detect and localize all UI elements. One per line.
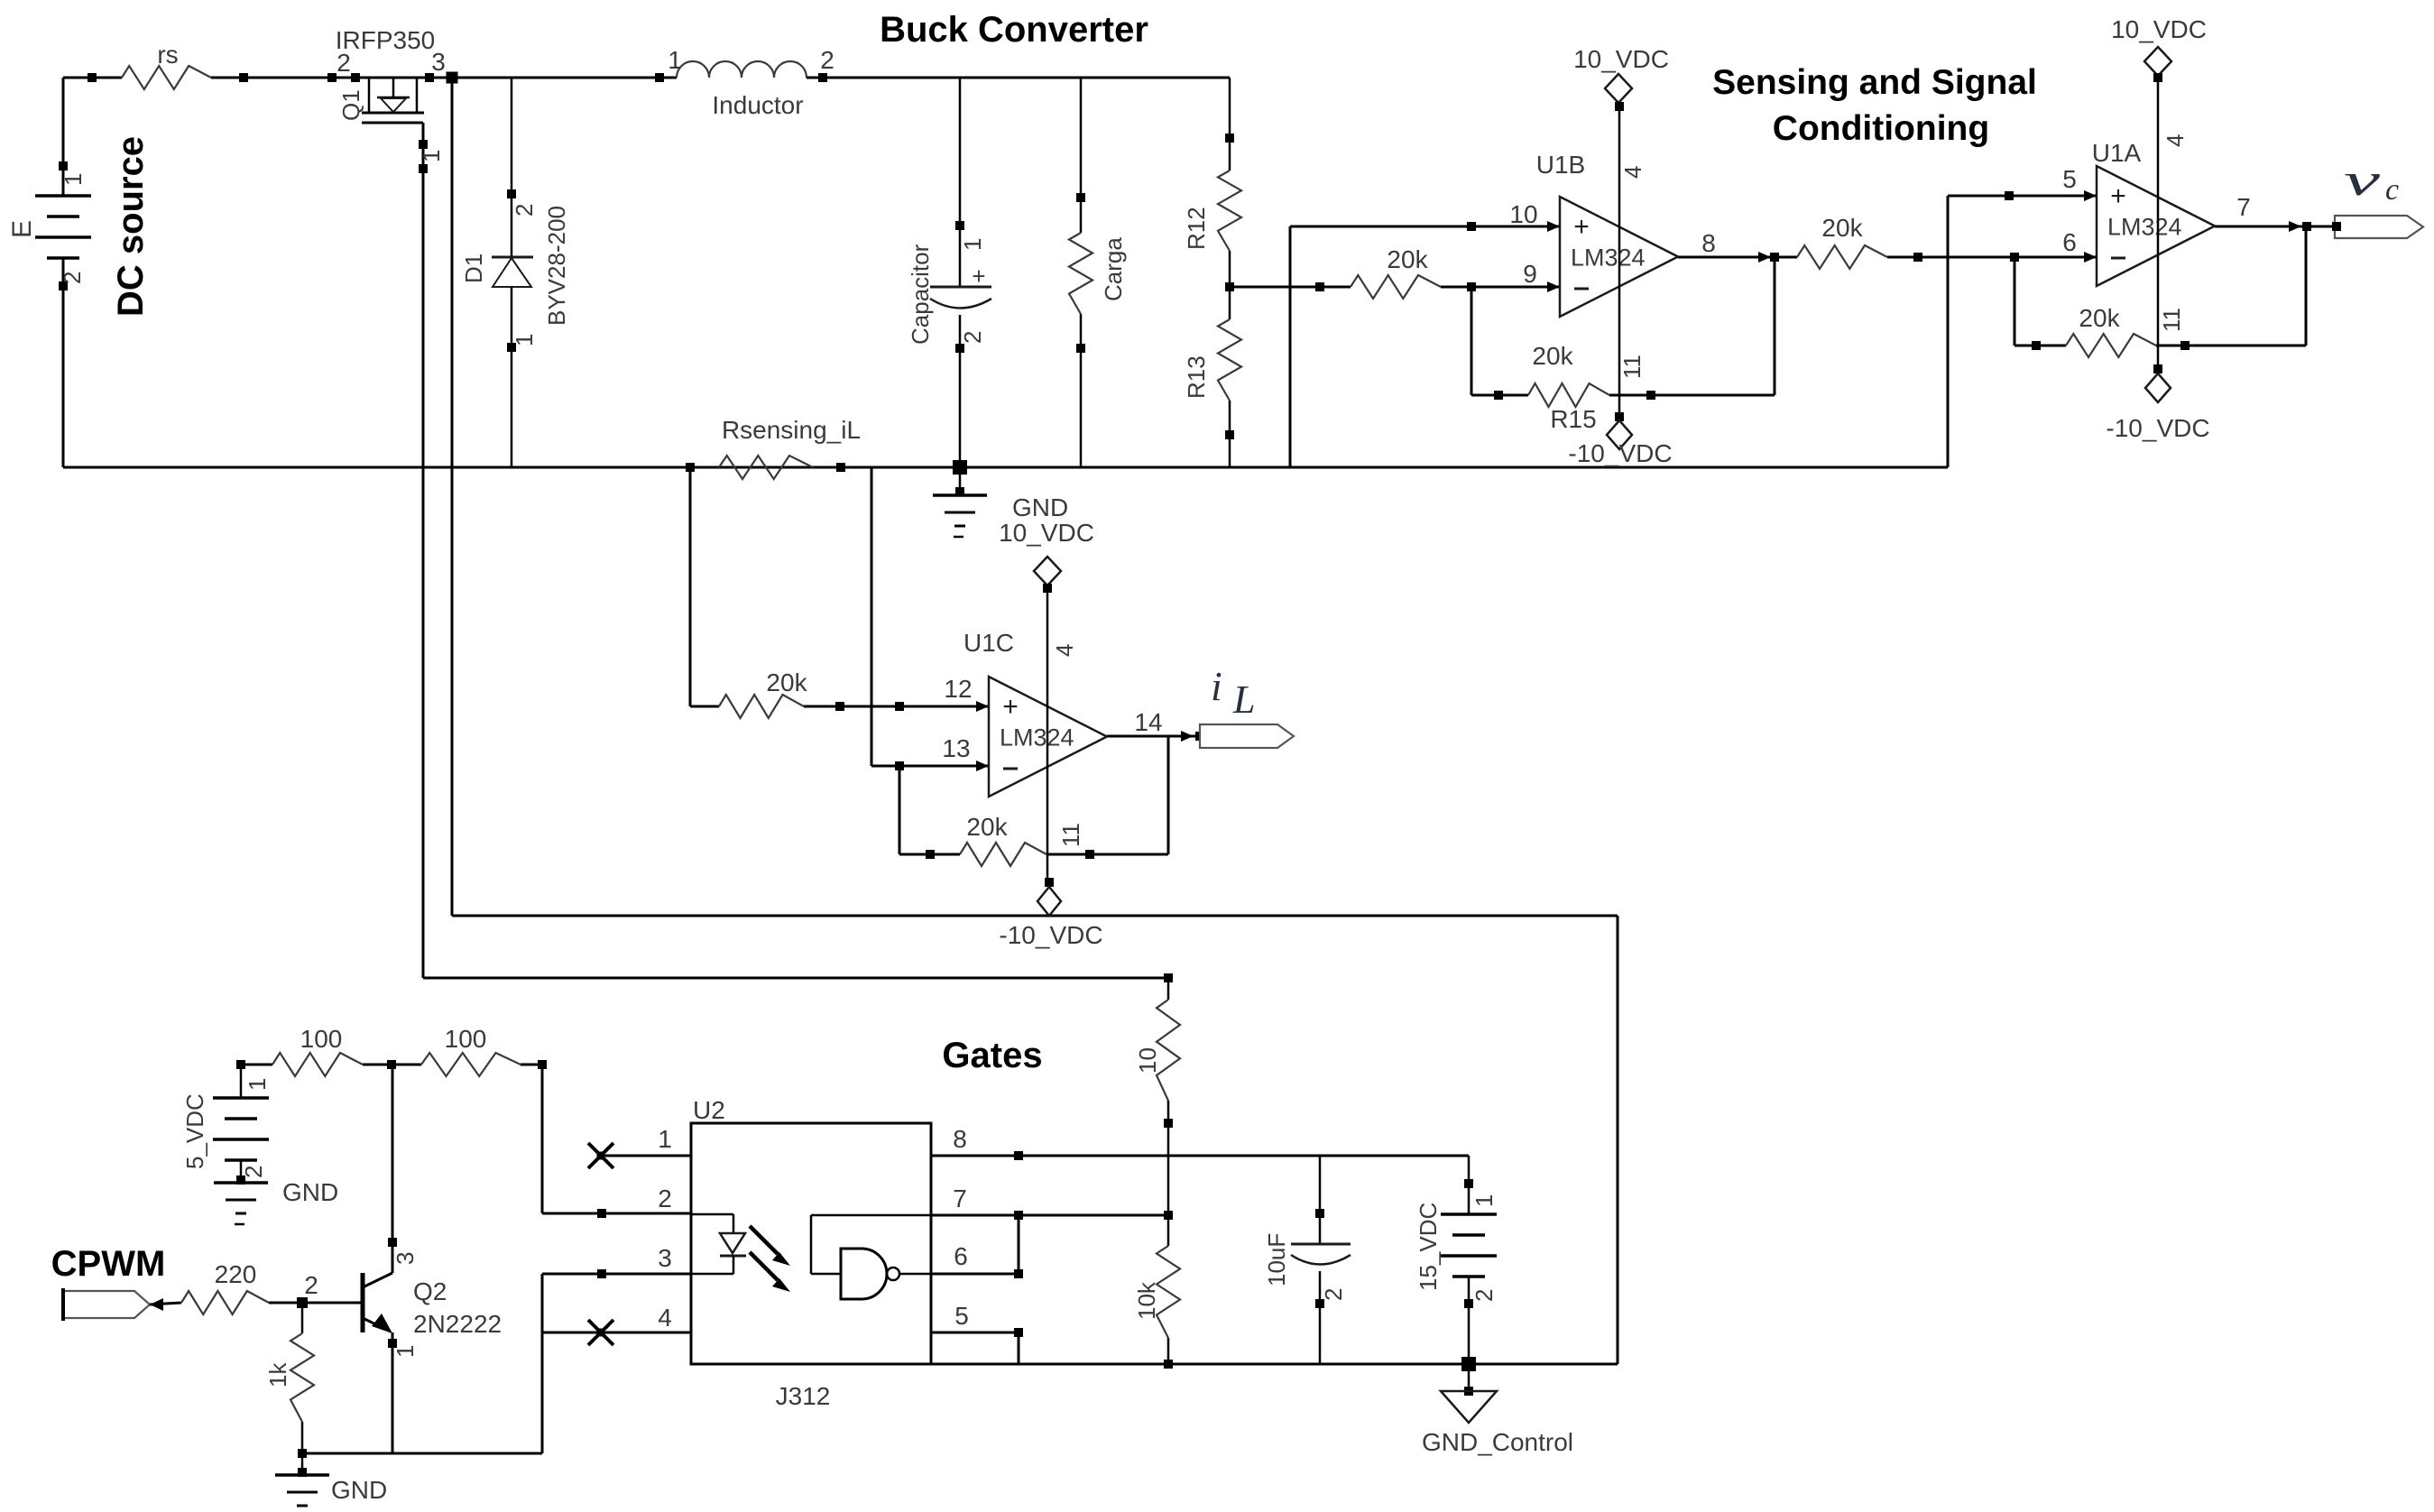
svg-text:Carga: Carga <box>1100 237 1127 301</box>
LED inside U2 <box>691 1213 733 1216</box>
svg-text:U1C: U1C <box>963 629 1014 657</box>
node pin3 of Q1 <box>425 73 434 82</box>
svg-text:10: 10 <box>1134 1047 1161 1074</box>
wire U2 pin 4 (no connect) <box>542 1332 691 1334</box>
svg-text:20k: 20k <box>966 813 1008 841</box>
svg-text:2: 2 <box>1320 1288 1347 1301</box>
battery 5_VDC <box>236 1060 245 1069</box>
svg-text:8: 8 <box>953 1125 967 1153</box>
svg-text:E: E <box>7 220 37 238</box>
wire U1C output pin 14 <box>1107 735 1200 738</box>
op-amp U1B <box>1560 197 1678 317</box>
svg-text:4: 4 <box>1051 644 1078 657</box>
wire bus bottom return line <box>63 466 1948 469</box>
power -10_VDC at U1A <box>2153 364 2162 373</box>
svg-text:IRFP350: IRFP350 <box>336 26 436 54</box>
resistor 100 (left) <box>241 1064 272 1066</box>
svg-text:R12: R12 <box>1183 207 1210 250</box>
svg-text:10_VDC: 10_VDC <box>2111 15 2207 43</box>
ground GND at capacitor <box>959 467 962 495</box>
svg-text:11: 11 <box>1057 823 1084 847</box>
svg-text:220: 220 <box>215 1260 257 1288</box>
wire bottom control line <box>931 1363 1618 1366</box>
svg-text:1: 1 <box>511 334 538 346</box>
svg-text:-10_VDC: -10_VDC <box>999 921 1102 949</box>
svg-text:Gates: Gates <box>942 1036 1042 1075</box>
svg-text:15_VDC: 15_VDC <box>1415 1203 1442 1291</box>
wire bus riser to U1A pin 5 <box>1947 196 1950 467</box>
transistor Q2 2N2222 <box>361 1273 365 1332</box>
svg-text:11: 11 <box>1618 355 1646 379</box>
svg-text:20k: 20k <box>1387 245 1428 273</box>
resistor 10 <box>1167 978 1170 1000</box>
svg-text:GND: GND <box>1012 493 1068 521</box>
svg-text:11: 11 <box>2158 308 2185 332</box>
svg-text:8: 8 <box>1701 229 1716 257</box>
battery 15_VDC <box>1468 1156 1471 1214</box>
svg-text:Rsensing_iL: Rsensing_iL <box>722 416 861 444</box>
svg-text:L: L <box>1232 678 1255 722</box>
resistor 10k <box>1157 1246 1180 1338</box>
wire U2 pin 6 riser <box>931 1273 1019 1276</box>
svg-text:100: 100 <box>445 1025 487 1053</box>
svg-text:13: 13 <box>942 734 970 762</box>
svg-text:3: 3 <box>658 1244 672 1272</box>
LED emission arrows <box>750 1226 778 1254</box>
wire bottom gnd run <box>302 1452 542 1455</box>
wire top rail from battery to rs <box>63 77 122 79</box>
resistor R13 <box>1218 319 1241 401</box>
svg-text:20k: 20k <box>2079 304 2120 332</box>
svg-text:+: + <box>972 263 985 290</box>
svg-text:-10_VDC: -10_VDC <box>1568 439 1672 467</box>
power -10_VDC at U1C <box>1045 878 1054 887</box>
svg-text:1: 1 <box>392 1345 419 1358</box>
svg-text:5: 5 <box>954 1302 969 1330</box>
svg-text:Q1: Q1 <box>337 89 364 121</box>
resistor 220 <box>150 1303 181 1305</box>
svg-text:LM324: LM324 <box>1000 724 1074 751</box>
svg-text:+: + <box>2110 181 2126 211</box>
wire R12/R13 node to 20k into pin 9 <box>1230 286 1351 289</box>
svg-text:7: 7 <box>953 1185 967 1212</box>
battery E DC source <box>62 78 65 196</box>
svg-text:2: 2 <box>820 46 834 74</box>
svg-text:9: 9 <box>1523 260 1537 288</box>
svg-text:12: 12 <box>944 675 972 703</box>
wire Q2 emitter down <box>392 1332 394 1453</box>
svg-text:2: 2 <box>1471 1289 1498 1302</box>
svg-text:Capacitor: Capacitor <box>907 244 934 345</box>
ground GND at Q2 <box>301 1453 304 1475</box>
resistor 20k feedback U1A <box>2014 257 2016 346</box>
svg-text:6: 6 <box>2062 228 2077 256</box>
svg-text:D1: D1 <box>460 254 487 283</box>
svg-text:DC source: DC source <box>111 136 151 317</box>
svg-text:1: 1 <box>1471 1194 1498 1207</box>
wire -10VDC horizontal rail <box>452 915 1618 917</box>
svg-text:1: 1 <box>60 173 87 186</box>
resistor 20k feedback U1C <box>899 766 901 854</box>
svg-text:14: 14 <box>1134 708 1162 736</box>
svg-text:3: 3 <box>392 1252 419 1265</box>
svg-text:10uF: 10uF <box>1263 1233 1290 1286</box>
svg-text:2: 2 <box>658 1185 672 1212</box>
svg-text:rs: rs <box>157 41 178 69</box>
svg-text:Sensing and Signal: Sensing and Signal <box>1712 63 2037 102</box>
svg-text:2N2222: 2N2222 <box>413 1310 502 1338</box>
svg-text:4: 4 <box>2162 134 2189 147</box>
svg-text:J312: J312 <box>776 1382 831 1410</box>
wire U1B output pin 8 <box>1678 256 1797 259</box>
capacitor 10uF <box>1319 1156 1322 1244</box>
svg-text:-10_VDC: -10_VDC <box>2106 414 2209 442</box>
wire U2 pin 8 to 15_VDC <box>931 1155 1469 1157</box>
resistor 100 (right) <box>421 1053 521 1076</box>
svg-text:4: 4 <box>658 1304 672 1332</box>
svg-text:1: 1 <box>959 238 986 251</box>
svg-text:2: 2 <box>240 1166 267 1178</box>
resistor 20k (U1C non-inverting input) <box>719 695 804 718</box>
wire U2 pin 1 (no connect) <box>601 1155 691 1157</box>
svg-text:Q2: Q2 <box>413 1277 447 1305</box>
svg-text:Buck Converter: Buck Converter <box>880 10 1148 50</box>
resistor 1k <box>301 1303 304 1333</box>
connector tag i_L <box>1200 724 1294 748</box>
svg-text:+: + <box>1002 692 1019 722</box>
svg-text:R13: R13 <box>1183 355 1210 399</box>
svg-text:10: 10 <box>1509 200 1537 228</box>
capacitor (output) <box>959 78 962 287</box>
svg-text:100: 100 <box>300 1025 343 1053</box>
IC U2 J312 opto-NAND box <box>691 1123 931 1364</box>
svg-text:GND: GND <box>331 1476 387 1504</box>
svg-text:1: 1 <box>658 1125 672 1153</box>
svg-text:GND_Control: GND_Control <box>1422 1428 1573 1456</box>
wire 100 to U2 pin 2 <box>541 1065 544 1213</box>
wire rs to MOSFET and across to inductor <box>211 77 677 79</box>
wire U2 pin 5 drop <box>931 1332 1019 1334</box>
svg-text:5_VDC: 5_VDC <box>181 1093 208 1169</box>
NAND gate inside U2 <box>811 1214 931 1217</box>
svg-text:GND: GND <box>282 1178 338 1206</box>
resistor R12 <box>1229 78 1231 171</box>
svg-text:LM324: LM324 <box>2107 214 2182 241</box>
resistor Carga <box>1080 78 1083 233</box>
wire -10VDC rail down to control ground <box>1617 916 1619 1364</box>
svg-text:1: 1 <box>418 150 445 162</box>
svg-text:Conditioning: Conditioning <box>1773 109 1989 148</box>
svg-text:LM324: LM324 <box>1571 244 1646 272</box>
svg-text:U1B: U1B <box>1536 151 1585 179</box>
svg-text:1: 1 <box>668 46 682 74</box>
resistor R15 20k feedback U1B <box>1471 287 1473 395</box>
wire riser to U1C pin 13 <box>871 467 873 766</box>
svg-text:1: 1 <box>244 1078 271 1091</box>
svg-text:6: 6 <box>954 1242 968 1270</box>
svg-text:1k: 1k <box>264 1362 291 1388</box>
wire gate drive horizontal <box>423 977 1168 980</box>
svg-text:2: 2 <box>959 331 986 344</box>
svg-text:2: 2 <box>304 1271 318 1299</box>
svg-text:20k: 20k <box>1532 342 1573 370</box>
svg-text:v: v <box>2344 154 2381 205</box>
svg-text:U2: U2 <box>693 1096 725 1124</box>
power -10_VDC at U1B <box>1615 412 1624 421</box>
resistor Rsensing_iL <box>686 463 695 472</box>
wire Q1 source pin1 down (gate drive vertical A) <box>422 123 425 978</box>
svg-text:20k: 20k <box>766 668 807 696</box>
wire U2 pin 7 to 10k node <box>931 1214 1168 1217</box>
svg-text:Inductor: Inductor <box>712 91 803 119</box>
resistor 20k (U1B out to U1A) <box>1797 245 1887 269</box>
svg-text:R15: R15 <box>1550 405 1596 433</box>
ground GND_Control <box>1468 1364 1471 1391</box>
wire from Q1 pin3 node down to -10VDC rail <box>451 78 454 916</box>
node pin2 of Q1 <box>327 73 337 82</box>
svg-text:4: 4 <box>1619 166 1646 179</box>
svg-text:U1A: U1A <box>2092 139 2142 167</box>
svg-text:5: 5 <box>2062 165 2077 193</box>
svg-text:i: i <box>1211 663 1222 709</box>
inductor <box>655 73 664 82</box>
svg-text:c: c <box>2385 173 2399 207</box>
svg-text:2: 2 <box>59 272 86 284</box>
wire Q2 collector up <box>392 1065 394 1273</box>
wire U2 pin 3 to gnd run <box>542 1273 691 1276</box>
svg-text:CPWM: CPWM <box>51 1244 166 1284</box>
op-amp U1C <box>989 677 1107 797</box>
svg-text:10k: 10k <box>1133 1281 1160 1320</box>
resistor rs <box>122 66 211 89</box>
ground GND at 5_VDC <box>214 1181 268 1185</box>
svg-text:10_VDC: 10_VDC <box>1573 45 1669 73</box>
svg-text:2: 2 <box>511 204 538 217</box>
wire bus riser to pin 10 <box>1289 226 1292 467</box>
svg-text:+: + <box>1573 212 1590 242</box>
connector tag v_c <box>2335 216 2423 238</box>
op-amp U1A <box>2097 166 2215 286</box>
svg-text:7: 7 <box>2236 193 2251 221</box>
svg-text:20k: 20k <box>1821 214 1863 242</box>
svg-text:BYV28-200: BYV28-200 <box>543 206 570 326</box>
diode D1 BYV28-200 <box>511 78 513 258</box>
svg-text:10_VDC: 10_VDC <box>999 519 1094 547</box>
resistor 20k (U1B inverting input) <box>1351 275 1441 299</box>
wire U1A output pin 7 <box>2215 226 2335 228</box>
wire node to 20k U1C input <box>689 467 692 706</box>
